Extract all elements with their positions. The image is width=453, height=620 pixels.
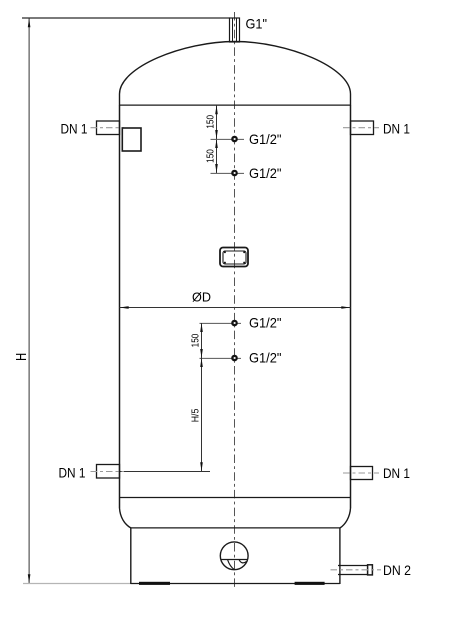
arrowhead OD left <box>120 306 129 309</box>
centerline vertical <box>234 12 236 589</box>
nozzle DN1 top-left centerline <box>91 127 125 129</box>
svg-text:H/5: H/5 <box>190 408 201 422</box>
nozzle DN2 pipe top <box>338 565 368 567</box>
nozzle DN1 bottom-left centerline <box>91 471 125 473</box>
nozzle DN1 top-right centerline <box>343 127 379 129</box>
nozzle DN1 top-right <box>351 121 374 135</box>
arrowhead H top <box>28 18 31 27</box>
skirt top edge <box>131 527 340 529</box>
flange bolt top-left <box>224 251 226 253</box>
arrowhead up at port1 <box>215 139 218 148</box>
arrowhead up at lower port2 <box>200 358 203 367</box>
port G1/2 lower-2 <box>231 355 238 362</box>
svg-text:G1/2": G1/2" <box>249 315 282 331</box>
drain chord <box>220 559 248 561</box>
port row tick lower-2 <box>200 357 242 359</box>
dimension chain lower (150 + H/5) <box>201 323 203 472</box>
ground line <box>23 583 131 585</box>
nozzle DN2 pipe bottom <box>338 574 368 576</box>
skirt left wall <box>130 528 132 584</box>
svg-text:DN 1: DN 1 <box>59 465 86 481</box>
port row tick upper-2 <box>211 172 245 174</box>
arrowhead down at port1 <box>215 130 218 139</box>
port G1/2 upper-1 <box>231 136 238 143</box>
inner sleeve box <box>122 128 141 151</box>
drain elbow left arc <box>228 560 235 570</box>
svg-text:ØD: ØD <box>192 289 211 304</box>
arrowhead up at weld <box>215 105 218 114</box>
reference line at nozzle level <box>120 471 211 473</box>
svg-text:150: 150 <box>190 333 201 347</box>
foot right <box>295 582 325 585</box>
flange bolt top-right <box>243 251 245 253</box>
arrowhead down at lower port2 <box>200 349 203 358</box>
port G1/2 lower-1 <box>231 320 238 327</box>
flange inner <box>223 251 246 264</box>
bottom head right knuckle <box>340 508 351 528</box>
nozzle DN2 centerline <box>331 569 382 571</box>
port row tick lower-1 <box>200 322 242 324</box>
svg-text:G1": G1" <box>246 16 268 32</box>
skirt right wall <box>339 528 341 584</box>
svg-text:DN 1: DN 1 <box>383 120 410 136</box>
svg-text:G1/2": G1/2" <box>249 350 282 366</box>
foot left <box>139 582 170 585</box>
pipe G1 top <box>230 18 240 42</box>
port row tick upper-1 <box>211 138 245 140</box>
svg-text:DN 2: DN 2 <box>383 562 411 578</box>
nozzle DN1 bottom-left <box>97 465 120 479</box>
tank shell right wall <box>350 105 352 508</box>
arrowhead down at port2 <box>215 164 218 173</box>
flange bolt bottom-left <box>224 262 226 264</box>
weld seam bottom <box>120 497 351 499</box>
arrowhead H bottom <box>28 574 31 583</box>
dimension line OD <box>120 307 351 309</box>
flange bolt bottom-right <box>243 262 245 264</box>
drain elbow right arc <box>239 560 247 563</box>
skirt bottom edge <box>131 583 340 585</box>
nozzle DN1 top-left <box>97 121 120 135</box>
svg-text:H: H <box>14 353 30 361</box>
arrowhead up at lower port1 <box>200 323 203 332</box>
extension line top <box>22 17 230 19</box>
tank shell left wall <box>119 105 121 508</box>
weld seam top <box>120 104 351 106</box>
svg-text:150: 150 <box>205 149 216 163</box>
svg-text:DN 1: DN 1 <box>61 120 88 136</box>
arrowhead OD right <box>341 306 350 309</box>
drain opening circle <box>220 542 248 570</box>
bottom head left knuckle <box>120 508 132 528</box>
arrowhead down at reference line <box>200 462 203 471</box>
port G1/2 upper-2 <box>231 170 238 177</box>
nozzle DN2 end coupling <box>368 565 373 575</box>
tank dome <box>120 42 351 106</box>
svg-text:150: 150 <box>205 114 216 128</box>
nozzle DN1 bottom-right centerline <box>343 472 379 474</box>
svg-text:DN 1: DN 1 <box>383 465 410 481</box>
dimension chain upper (150/150) <box>216 105 218 173</box>
svg-text:G1/2": G1/2" <box>249 165 282 181</box>
svg-text:G1/2": G1/2" <box>249 131 282 147</box>
flange outer <box>220 248 248 267</box>
dimension line H <box>28 18 30 583</box>
nozzle DN1 bottom-right <box>351 467 373 480</box>
